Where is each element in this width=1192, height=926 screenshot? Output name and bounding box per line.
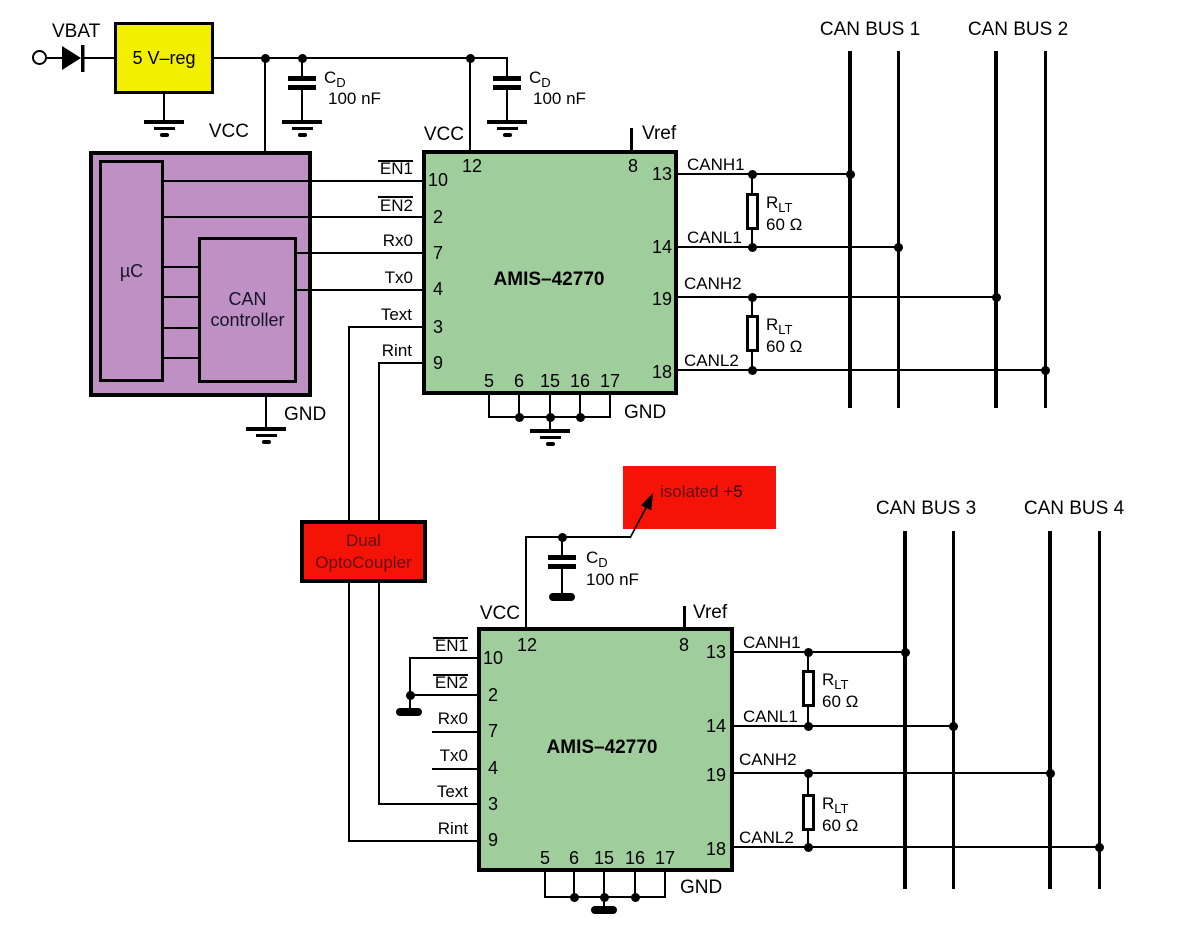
wire CANH1 U1 pin 13 to bus 1 [678,173,852,175]
isolated ground under U2 [591,906,617,914]
arrow to isolated +5 [615,485,665,545]
capacitor C3 (CD 100 nF) [548,555,576,560]
Rint signal label [382,342,412,359]
junction CANH2 / CAN bus 4 [1046,769,1055,778]
U2 EN2 overline [433,674,468,676]
CANH1 label U1 [687,156,745,173]
U2 pin 14 [706,717,726,735]
wire Text U1 pin 3 horizontal [348,326,422,328]
U2 part name AMIS-42770 [547,738,658,757]
transceiver U2 AMIS-42770 [477,627,734,872]
U2 pin 9 [488,831,498,849]
RLT1 bottom lead [751,230,753,248]
CAN bus 3 line B [952,531,955,889]
junction node capacitor C1 [298,54,307,63]
U1 ground stub pin 6 [518,395,520,418]
U1 Vref pin 8 stub [630,128,633,150]
junction U2 pin 6 ground [570,893,579,902]
Rint label U2 [438,820,468,837]
U2 pin 18 [706,840,726,858]
junction CANH1 / CAN bus 3 [901,648,910,657]
wire Rint U1 pin 9 horizontal [378,362,422,364]
RLT1 top lead [751,174,753,193]
isolated ground under C3 [549,593,575,601]
VCC label left [209,122,249,141]
capacitor C2 drop from rail [506,57,508,78]
CANH2 label U2 [739,751,797,768]
CAN BUS 4 label [1024,499,1124,518]
capacitor C2 value 100 nF [533,90,586,107]
U2 ground bus [544,896,666,898]
VCC label at U1 [424,125,464,144]
U1 ground stub pin 17 [609,395,611,418]
EN1 overline [378,160,413,162]
wire EN2 uC to U1 pin 2 [164,216,422,218]
wire CANL1 U1 pin 14 to bus 1 [678,246,900,248]
RLT2 bottom lead [751,352,753,370]
wire diode to regulator [84,57,114,59]
U1 pin 13 [652,165,672,183]
EN1 label U2 [435,637,468,654]
junction EN2 / ground [406,691,415,700]
VBAT net label [52,22,100,41]
CAN bus 2 line A [994,51,998,408]
U2 ground lead [603,897,605,906]
junction CANL2 / RLT2 [748,366,757,375]
capacitor C3 name CD [586,549,608,569]
CAN controller sub-block [198,237,297,383]
wire optocoupler to U2 Text [378,583,380,805]
U1 pin 15 [540,372,560,390]
wire terminal to diode [46,57,63,59]
RLT2 name [766,316,793,336]
GND label U1 [624,403,666,422]
Tx0 signal label [385,269,413,286]
U2 ground stub pin 16 [634,872,636,898]
diode D1 [60,44,88,73]
junction CANL2 / CAN bus 2 line B [1041,366,1050,375]
termination resistor RLT3 [802,670,816,707]
wire CANL1 U2 pin 14 to bus 3 [734,725,955,727]
U2 ground stub pin 17 [664,872,666,898]
U2 ground stub pin 15 [603,872,605,898]
termination resistor RLT1 [746,193,760,230]
U2 Tx0 pin 4 stub [432,768,477,770]
capacitor C1 top lead [301,58,303,77]
CANH1 label U2 [743,634,801,651]
CAN bus 1 line A [848,51,852,408]
junction pin 16 ground [576,413,585,422]
U2 pin 8 [679,636,689,654]
uC block ground lead [265,397,267,428]
wire Text down to optocoupler [348,326,350,520]
U1 pin 9 [433,354,443,372]
microcontroller block [89,151,312,397]
capacitor C2 (CD 100 nF) [493,76,521,81]
U1 ground stub pin 15 [549,395,551,418]
wire Rx0 CAN controller to U1 pin 7 [297,252,422,254]
VCC supply rail [214,57,508,59]
U1 pin 7 [433,244,443,262]
junction CANH2 / RLT2 [748,293,757,302]
Text signal label [381,306,412,323]
CAN BUS 3 label [876,499,976,518]
U1 pin 12 [462,157,482,175]
junction U2 pin 16 ground [631,893,640,902]
RLT4 name [822,795,849,815]
U2 ground stub pin 5 [544,872,546,898]
U2 EN1 overline [433,637,468,639]
U2 pin 5 [540,849,550,867]
Tx0 label U2 [440,747,468,764]
U2 Vref pin 8 stub [683,606,686,627]
RLT1 name [766,194,793,214]
CANL2 label U1 [684,352,739,369]
voltage regulator 5 V-reg [114,22,214,94]
U2 pin 2 [488,686,498,704]
wire CANH2 U2 pin 19 to bus 4 [734,772,1052,774]
capacitor C3 top lead [561,537,563,556]
VCC label U2 [480,604,520,623]
Vref label U1 [642,124,676,143]
bus link uC to CAN controller 3 [164,327,198,329]
RLT3 value 60 ohm [822,693,858,710]
capacitor C1 (CD 100 nF) [288,76,316,81]
junction CANH2 / CAN bus 2 [992,293,1001,302]
junction U2 pin 15 ground [600,893,609,902]
junction pin 6 ground [515,413,524,422]
wire isolated VCC horizontal [526,536,630,538]
U1 pin 16 [570,372,590,390]
U1 part name AMIS-42770 [494,270,605,289]
wire U2 EN1/EN2 down [409,657,411,708]
RLT4 top lead [807,773,809,794]
GND label U2 [680,878,722,897]
GND label uC block [284,405,326,424]
U1 pin 6 [514,372,524,390]
bus link uC to CAN controller 4 [164,357,198,359]
CANL1 label U2 [743,708,798,725]
isolated +5 label [660,483,743,500]
capacitor C3 value 100 nF [586,571,639,588]
ground under U1 [530,429,570,433]
RLT3 bottom lead [807,707,809,726]
junction CANL1 / CAN bus 3 line B [949,722,958,731]
capacitor C1 value 100 nF [328,90,381,107]
RLT3 top lead [807,652,809,670]
U2 pin 15 [594,849,614,867]
junction CANH2 / RLT4 [804,769,813,778]
U2 pin 19 [706,766,726,784]
wire U2 EN1 pin 10 [410,657,477,659]
U2 pin 12 [517,636,537,654]
CAN bus 2 line B [1044,51,1047,408]
U2 ground stub pin 6 [573,872,575,898]
junction CANH1 / CAN bus 1 [846,170,855,179]
U1 pin 14 [652,238,672,256]
U1 pin 2 [433,208,443,226]
U1 pin 8 [628,157,638,175]
U2 pin 13 [706,643,726,661]
U1 pin 3 [433,318,443,336]
wire optocoupler to U2 Rint [348,583,350,842]
dual optocoupler block [300,520,427,583]
Rx0 label U2 [438,710,468,727]
EN2 signal label [380,197,413,214]
ground under regulator [144,120,184,124]
U1 pin 17 [600,372,620,390]
EN2 overline [378,196,413,198]
RLT3 name [822,671,849,691]
U2 pin 16 [625,849,645,867]
capacitor C3 bottom lead [561,569,563,593]
bus link uC to CAN controller 1 [164,266,198,268]
wire EN1 uC to U1 pin 10 [164,180,422,182]
capacitor C2 name CD [529,69,551,89]
capacitor C2 bottom lead [506,90,508,120]
Rx0 signal label [383,232,413,249]
ground under capacitor C1 [282,120,322,124]
U1 pin 18 [652,363,672,381]
ground under uC block [246,427,286,431]
wire CANH2 U1 pin 19 to bus 2 [678,296,996,298]
CAN BUS 2 label [968,20,1068,39]
wire CANL2 U1 pin 18 to bus 2 [678,369,1045,371]
CAN bus 3 line A [903,531,907,889]
U2 Rx0 pin 7 stub [432,731,477,733]
transceiver U1 AMIS-42770 [422,150,678,395]
CANL1 label U1 [687,229,742,246]
junction CANL2 / RLT4 [804,843,813,852]
wire Rint down to optocoupler [378,362,380,520]
RLT1 value 60 ohm [766,216,802,233]
capacitor C1 bottom lead [301,90,303,120]
bus link uC to CAN controller 2 [164,296,198,298]
wire Tx0 CAN controller to U1 pin 4 [297,289,422,291]
RLT2 value 60 ohm [766,338,802,355]
junction CANH1 / RLT3 [804,648,813,657]
termination resistor RLT2 [746,315,760,352]
U1 pin 4 [433,280,443,298]
CAN BUS 1 label [820,20,920,39]
junction node VCC pin 12 of U1 [466,54,475,63]
capacitor C1 name CD [324,69,346,89]
U2 pin 17 [655,849,675,867]
U1 pin 10 [428,171,448,189]
regulator ground lead [163,94,165,121]
CANL2 label U2 [739,829,794,846]
U1 pin 19 [652,290,672,308]
CANH2 label U1 [684,275,742,292]
CAN bus 4 line B [1098,531,1101,889]
ground under capacitor C2 [487,120,527,124]
CAN bus 1 line B [897,51,900,408]
U1 pin 5 [484,372,494,390]
isolated ground at EN pins [396,708,422,716]
wire U2 Rint horizontal pin 9 [348,840,478,842]
EN2 label U2 [435,674,468,691]
U1 ground lead [549,417,551,430]
wire VCC drop to uC block [264,58,266,151]
wire CANH1 U2 pin 13 to bus 3 [734,651,907,653]
CAN bus 4 line A [1048,531,1052,889]
U1 ground stub pin 5 [488,395,490,418]
wire CANL2 U2 pin 18 to bus 4 [734,846,1101,848]
junction pin 15 ground [546,413,555,422]
junction CANL1 / RLT3 [804,722,813,731]
wire U2 Text horizontal pin 3 [378,803,478,805]
uC sub-block [99,160,164,382]
RLT2 top lead [751,297,753,315]
wire VCC drop to U1 pin 12 [469,58,471,151]
junction CANH1 / RLT1 [748,170,757,179]
junction capacitor C3 [558,533,567,542]
wire U2 EN2 pin 2 [410,694,477,696]
U1 ground bus [488,416,611,418]
junction CANL1 / RLT1 [748,243,757,252]
Vref label U2 [693,603,727,622]
U1 ground stub pin 16 [579,395,581,418]
input terminal circle [32,50,47,65]
termination resistor RLT4 [802,794,816,831]
U2 pin 10 [483,649,503,667]
U2 pin 4 [488,759,498,777]
Text label U2 [437,783,468,800]
junction CANL1 / CAN bus 1 line B [894,243,903,252]
isolated +5 supply block [623,466,776,529]
RLT4 bottom lead [807,831,809,848]
U2 pin 6 [569,849,579,867]
U2 pin 3 [488,795,498,813]
EN1 signal label [380,160,413,177]
wire VCC down to U2 pin 12 [525,536,527,627]
RLT4 value 60 ohm [822,817,858,834]
junction node VCC to microcontroller block [261,54,270,63]
U2 pin 7 [488,722,498,740]
junction CANL2 / CAN bus 4 line B [1095,843,1104,852]
